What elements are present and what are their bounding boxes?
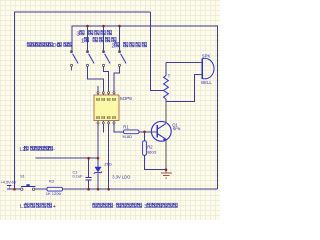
svg-text:T: T: [168, 74, 171, 79]
svg-text:2: 2: [112, 43, 115, 49]
svg-text:+: +: [53, 204, 56, 210]
svg-text:1K 1206: 1K 1206: [46, 191, 62, 196]
svg-text:3.3V LDO: 3.3V LDO: [112, 174, 130, 179]
svg-text:1: 1: [81, 38, 84, 44]
svg-text:NPN: NPN: [173, 127, 181, 131]
svg-text:SPK: SPK: [202, 53, 211, 58]
svg-text:SOP8: SOP8: [120, 96, 133, 101]
svg-text:BELL: BELL: [201, 80, 212, 85]
svg-text:0.1uF: 0.1uF: [73, 174, 84, 179]
svg-text:3: 3: [77, 31, 80, 37]
svg-text:3: 3: [144, 204, 147, 210]
svg-text:+4.5V-6V: +4.5V-6V: [1, 181, 17, 185]
svg-text:-: -: [53, 147, 55, 153]
svg-text:R2: R2: [147, 145, 153, 150]
svg-text:M-8Ω: M-8Ω: [123, 135, 133, 139]
svg-text:ZTD: ZTD: [104, 162, 112, 167]
svg-text:S1: S1: [20, 175, 24, 179]
svg-text:R3: R3: [49, 180, 54, 184]
svg-text:R1: R1: [123, 125, 129, 130]
svg-text:860Ω: 860Ω: [147, 150, 156, 154]
